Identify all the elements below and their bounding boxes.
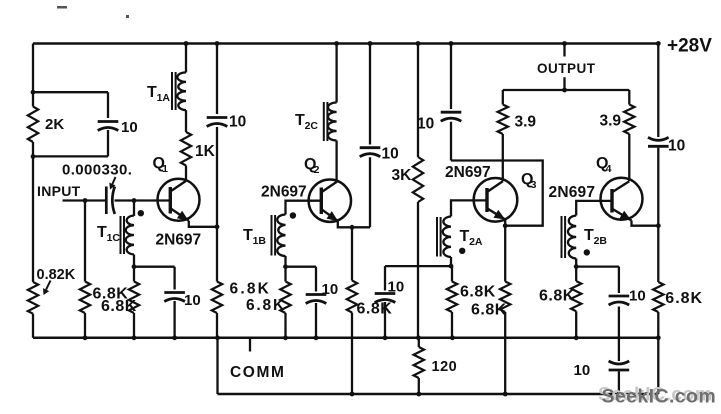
wire Q2 emitter	[338, 221, 370, 227]
wire lower cap bottom lead	[618, 371, 620, 394]
wire R-g bottom lead	[504, 312, 506, 394]
wire C-e3 bottom lead	[384, 302, 386, 338]
wire 1K to Q1 collector	[185, 166, 187, 181]
wire left edge upper	[32, 44, 34, 93]
svg-text:3.9: 3.9	[515, 114, 537, 131]
wire C-e3 top lead	[384, 266, 386, 290]
svg-text:6.8K: 6.8K	[246, 297, 286, 314]
svg-text:2: 2	[314, 164, 320, 176]
svg-text:6.8K: 6.8K	[665, 290, 703, 307]
transformer T2A winding	[443, 217, 451, 258]
svg-text:10: 10	[388, 279, 405, 296]
svg-text:2N697: 2N697	[156, 232, 202, 249]
svg-text:6.8K: 6.8K	[101, 298, 137, 315]
node R-c ground	[215, 335, 220, 340]
node C-e3 ground	[383, 335, 388, 340]
resistor 3.9 (Q4 load)	[624, 105, 634, 135]
resistor 6.8K (input bias)	[80, 282, 90, 314]
wire 3.9R top lead	[628, 90, 630, 105]
node R-g lower-rail junction	[503, 392, 508, 397]
node R-i ground	[656, 335, 661, 340]
wire R-f top lead	[451, 266, 453, 281]
transformer T2B winding	[568, 216, 576, 259]
wire C1 top lead	[216, 44, 218, 115]
node C-e1 ground	[172, 335, 177, 340]
wire T2C top lead	[335, 44, 337, 103]
svg-text:T: T	[97, 224, 107, 241]
resistor 0.82K (variable)	[28, 282, 38, 314]
svg-text:T: T	[460, 228, 470, 245]
resistor 6.8K (T1B return)	[280, 282, 290, 314]
node C4 rail tap	[656, 41, 661, 46]
wire T2B bottom lead	[575, 259, 577, 267]
wire 2K-C10 box top	[33, 91, 108, 93]
wire C1 to emitter	[216, 127, 218, 227]
resistor 6.8K (Q3 emitter)	[500, 282, 510, 313]
wire 120 bottom lead	[418, 378, 420, 394]
wire C3 top lead	[450, 44, 452, 110]
svg-text:10: 10	[668, 138, 685, 155]
svg-text:T: T	[243, 227, 253, 244]
svg-text:10: 10	[382, 146, 399, 163]
svg-text:2A: 2A	[469, 236, 483, 248]
svg-text:1C: 1C	[107, 232, 121, 244]
resistor 6.8K (Q4 emitter)	[653, 282, 663, 312]
wire R-i bottom lead	[657, 312, 659, 338]
transformer T1A winding	[177, 72, 186, 110]
wire T2C to Q2 collector	[335, 141, 337, 182]
resistor 120	[414, 347, 424, 378]
wire T2A bottom lead	[450, 257, 452, 266]
resistor 3K	[413, 157, 423, 202]
resistor 6.8K (Q1 emitter)	[212, 282, 222, 314]
wire T1A to 1K	[185, 110, 187, 132]
node OUTPUT junction	[562, 88, 567, 93]
wire C-e1 bottom lead	[173, 301, 175, 338]
arrow to 0.82K	[46, 281, 50, 290]
node T2C rail tap	[334, 41, 339, 46]
capacitor 0.000330 input coupling	[105, 187, 108, 215]
node C2 rail tap	[368, 41, 373, 46]
node input/R6.8K junction	[83, 198, 88, 203]
svg-text:2N697: 2N697	[445, 164, 491, 181]
wire 3.9L to Q3 collector	[502, 134, 504, 181]
svg-text:10: 10	[574, 362, 591, 379]
wire C-e1 top lead	[173, 267, 175, 290]
capacitor 10 (stage3 leg)	[375, 292, 396, 295]
wire R-c bottom lead	[216, 313, 218, 338]
wire R-e top lead	[351, 227, 353, 280]
capacitor 10 (Q2 bypass)	[360, 146, 381, 149]
transformer T1B winding	[277, 215, 285, 257]
svg-text:10: 10	[121, 119, 138, 136]
wire C4 to emitter	[657, 148, 659, 226]
wire 3K top lead	[417, 44, 419, 158]
svg-text:6.8K: 6.8K	[460, 284, 496, 301]
wire T1C top lead	[133, 201, 135, 217]
svg-text:3.9: 3.9	[600, 113, 622, 130]
wire R-a bottom lead	[84, 313, 86, 338]
node C-e2 ground	[314, 335, 319, 340]
wire box right leg upper	[107, 92, 109, 118]
wire left edge lower	[32, 314, 34, 338]
wire rails connector	[216, 338, 218, 394]
wire C4 top lead	[657, 44, 659, 138]
wire Q4 base line	[576, 201, 612, 216]
wire R-b bottom lead	[133, 313, 135, 338]
wire T1B junction to C-e2	[286, 266, 317, 268]
transformer T2B core	[561, 216, 563, 258]
svg-text:4: 4	[606, 163, 612, 175]
node T2A bottom junction	[449, 264, 454, 269]
transformer T1A core	[171, 72, 173, 110]
wire T1A top lead	[185, 44, 187, 73]
resistor 2K	[28, 107, 38, 143]
node R-e lower-rail junction	[350, 392, 355, 397]
node C3 rail tap	[449, 41, 454, 46]
wire R-g top lead	[504, 226, 506, 282]
node T2B bottom junction	[574, 264, 579, 269]
node C1 rail tap	[215, 41, 220, 46]
transistor Q3	[474, 178, 518, 222]
wire emitter to R-i	[657, 226, 659, 282]
node 120 lower junction	[416, 392, 421, 397]
svg-text:OUTPUT: OUTPUT	[537, 61, 596, 76]
node R-d ground	[283, 335, 288, 340]
svg-text:T: T	[295, 112, 305, 129]
wire C-e2 bottom lead	[315, 303, 317, 338]
wire T1B bottom lead	[284, 256, 286, 267]
wire R-h bottom lead	[575, 311, 577, 338]
wire R-h top lead	[575, 267, 577, 282]
transformer T2C winding	[328, 103, 337, 141]
wire box right leg lower	[107, 130, 109, 156]
svg-text:2B: 2B	[594, 235, 608, 247]
node Q3 emitter junction	[503, 223, 508, 228]
transistor Q1	[158, 179, 200, 221]
node 3K rail tap	[416, 41, 421, 46]
svg-text:0.000330.: 0.000330.	[62, 162, 132, 179]
capacitor 10 (Q1 bypass)	[207, 116, 228, 119]
wire OUTPUT lower stub	[563, 77, 565, 90]
svg-text:120: 120	[432, 359, 458, 375]
wire C3 to bypass loop	[450, 122, 452, 161]
transformer T1C winding	[126, 216, 134, 255]
svg-text:+28V: +28V	[667, 36, 712, 57]
wire COMM bottom rail	[33, 337, 658, 340]
node T1A rail tap	[184, 41, 189, 46]
svg-text:2N697: 2N697	[261, 184, 307, 201]
svg-text:SeekIC.com: SeekIC.com	[602, 386, 717, 408]
node box bottom-left	[31, 154, 36, 159]
svg-text:10: 10	[184, 292, 201, 309]
node R-b ground	[132, 335, 137, 340]
wire 3.9R to Q4 collector	[628, 134, 630, 181]
wire C-e4 to lower cap	[618, 307, 620, 362]
node T1B phasing dot	[290, 212, 296, 218]
svg-text:1K: 1K	[195, 143, 216, 160]
wire R-b top lead	[133, 267, 135, 282]
arrow to input capacitor	[112, 177, 115, 184]
wire 120 top lead	[418, 338, 420, 347]
svg-text:2K: 2K	[45, 116, 64, 133]
wire lower ground bus	[218, 393, 659, 396]
wire 3.9L top lead	[502, 90, 504, 105]
wire Q3 bypass loop	[451, 161, 543, 226]
node T1C bottom junction	[132, 264, 137, 269]
node R-h ground	[574, 335, 579, 340]
capacitor 10 (across 2K)	[98, 120, 119, 123]
wire Q1 base line	[115, 199, 171, 201]
transistor Q2	[309, 180, 351, 222]
svg-text:6.8K: 6.8K	[539, 288, 575, 305]
wire C2 to emitter	[369, 157, 371, 227]
transformer T1C core	[120, 216, 122, 254]
wire T2B junction to C-e4	[576, 265, 619, 267]
wire T1C bottom lead	[133, 255, 135, 267]
speck top-left	[57, 6, 67, 9]
transformer T2C core	[323, 102, 325, 141]
resistor 1K	[181, 132, 191, 166]
capacitor 10 (stage1 emitter leg)	[164, 291, 185, 294]
wire C-e2 top lead	[315, 267, 317, 292]
wire Q3 base line	[451, 200, 487, 216]
svg-text:2C: 2C	[305, 120, 319, 132]
wire Q1 emitter	[189, 221, 217, 227]
svg-text:6.8K: 6.8K	[357, 301, 393, 318]
speck 2	[126, 15, 129, 18]
svg-text:3K: 3K	[392, 167, 413, 184]
capacitor 10 (stage4 leg)	[609, 295, 630, 298]
wire 2K-C10 box bottom	[33, 155, 108, 157]
node Q2 emitter junction	[350, 225, 355, 230]
svg-text:2N697: 2N697	[549, 184, 596, 201]
resistor 6.8K (T1C return)	[129, 282, 139, 314]
node T2A phasing dot	[459, 248, 465, 254]
resistor 3.9 (Q3 load)	[498, 105, 508, 135]
svg-text:10: 10	[322, 281, 339, 298]
wire emitter to R-c	[216, 227, 218, 282]
resistor 6.8K (Q2 emitter)	[347, 281, 357, 313]
resistor 6.8K (T2A return)	[447, 282, 457, 313]
svg-text:0.82K: 0.82K	[37, 267, 76, 283]
wire input line	[63, 199, 107, 201]
wire 2K to box bottom	[32, 142, 34, 156]
wire COMM stub	[249, 338, 251, 352]
node T1C top junction	[132, 198, 137, 203]
wire R-d bottom lead	[284, 313, 286, 338]
node 3K ground	[416, 335, 421, 340]
wire R-e bottom lead	[351, 313, 353, 395]
resistor 6.8K (T2B return)	[571, 281, 581, 311]
node Q4 emitter junction	[656, 223, 661, 228]
wire +28V top rail	[33, 42, 660, 45]
capacitor 10 (Q3 bypass)	[441, 111, 462, 114]
wire R-f bottom lead	[451, 312, 453, 338]
node lower cap junction	[617, 392, 622, 397]
node R-a ground	[83, 335, 88, 340]
transformer T2A core	[436, 217, 438, 257]
svg-text:1A: 1A	[157, 92, 171, 104]
node OUTPUT rail tap	[562, 41, 567, 46]
wire left leg to 2K	[32, 92, 34, 106]
wire OUTPUT upper stub	[563, 44, 565, 57]
node box top-left	[31, 90, 36, 95]
wire left edge middle	[32, 156, 34, 282]
wire R-a top lead	[84, 201, 86, 282]
wire Q3 emitter lead	[504, 220, 506, 226]
node R-f ground	[450, 335, 455, 340]
node T2B phasing dot	[584, 249, 590, 255]
svg-text:10: 10	[417, 116, 434, 133]
wire T2A junction to C-e3	[385, 265, 451, 267]
node T1B bottom junction	[283, 264, 288, 269]
svg-text:T: T	[584, 227, 594, 244]
wire Q4 emitter	[632, 221, 659, 226]
svg-text:T: T	[147, 84, 157, 101]
capacitor 10 (Q4 bypass)	[648, 145, 669, 148]
node T1C phasing dot	[138, 210, 144, 216]
svg-text:3: 3	[531, 179, 537, 191]
svg-text:INPUT: INPUT	[37, 183, 81, 199]
capacitor 10 (stage2 leg)	[306, 293, 327, 296]
wire 3K bottom lead	[417, 202, 419, 338]
wire T1C junction to C-e1	[134, 266, 175, 268]
wire C-e4 top lead	[618, 267, 620, 293]
wire R-d top lead	[284, 267, 286, 282]
svg-text:10: 10	[229, 114, 246, 131]
svg-text:COMM: COMM	[230, 364, 285, 381]
wire C2 top lead	[369, 44, 371, 145]
transistor Q4	[601, 178, 643, 220]
node Q1 emitter junction	[215, 224, 220, 229]
wire collector header	[503, 89, 630, 91]
wire R-i to lower rail	[657, 338, 659, 394]
transformer T1B core	[271, 215, 273, 256]
svg-text:6.8K: 6.8K	[230, 281, 272, 298]
capacitor 10 (lower, across 120)	[609, 369, 630, 372]
svg-text:1: 1	[162, 163, 168, 175]
svg-text:1B: 1B	[253, 235, 267, 247]
wire Q2 base line	[286, 201, 322, 215]
svg-text:10: 10	[629, 288, 646, 305]
